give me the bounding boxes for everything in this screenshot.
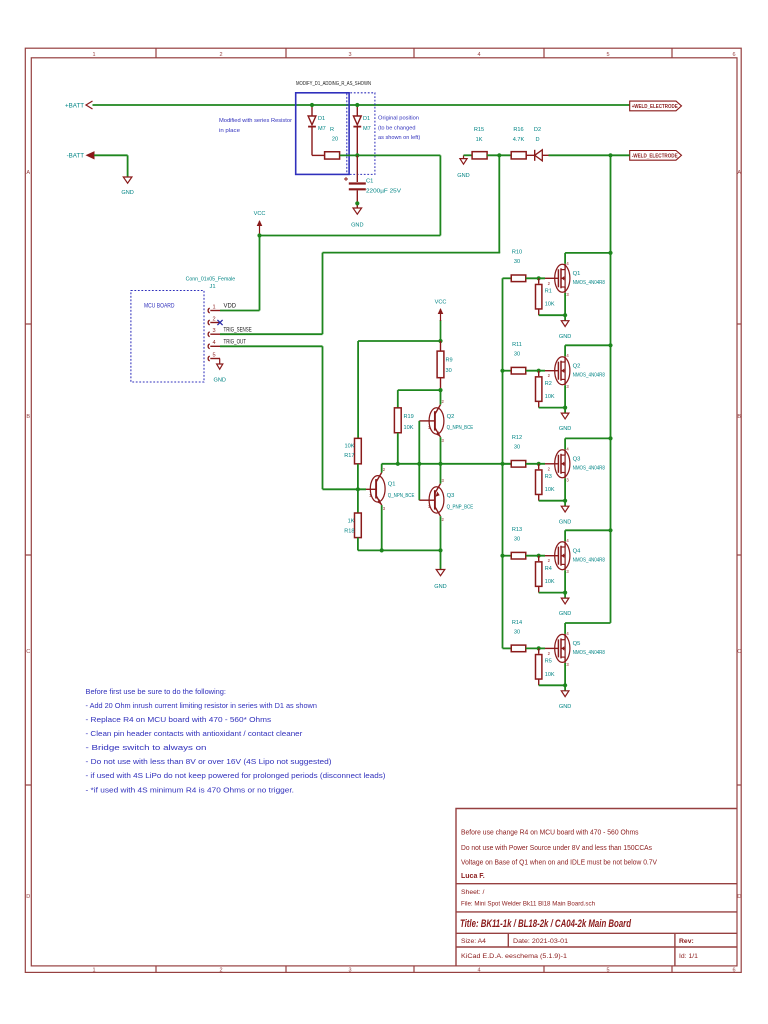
junction source node 1 [563, 313, 567, 317]
svg-text:R4: R4 [545, 566, 552, 572]
transistor Q3 Q_PNP_BCE [429, 487, 444, 513]
wire bus to R14 [503, 647, 512, 649]
ground GND R15 [463, 155, 465, 158]
svg-text:1K: 1K [476, 137, 483, 143]
driver ground rail [358, 549, 441, 551]
junction VCC rail [257, 233, 261, 237]
wire pin5 to ground [219, 358, 221, 360]
svg-text:2: 2 [219, 52, 222, 58]
hierarchical label -WELD_ELECTRODE [630, 151, 682, 161]
ground driver [440, 550, 442, 569]
svg-text:Q2: Q2 [447, 414, 455, 420]
wire Q5 drain riser [564, 623, 566, 634]
junction base tie on output row [417, 462, 421, 466]
junction source node 4 [563, 591, 567, 595]
svg-text:R: R [330, 127, 334, 133]
svg-text:10K: 10K [545, 672, 555, 678]
wire Q3 drain to bus [565, 437, 610, 439]
svg-text:5: 5 [606, 52, 609, 58]
svg-text:Id: 1/1: Id: 1/1 [679, 953, 698, 960]
svg-text:4: 4 [477, 967, 480, 973]
junction gate bus row 3 [500, 462, 504, 466]
svg-text:Before first use be sure to do: Before first use be sure to do the follo… [86, 687, 227, 696]
diode D1 (with series R) [311, 105, 313, 116]
junction drain bus row 1 [608, 251, 612, 255]
svg-text:R18: R18 [344, 528, 354, 534]
wire source to R2 [539, 407, 565, 409]
svg-text:- Replace R4 on MCU board with: - Replace R4 on MCU board with 470 - 560… [86, 715, 272, 724]
wire pin4 TRIG_OUT [220, 345, 323, 347]
wire R11 to gate [526, 370, 545, 372]
wire Q1 drain to bus [565, 252, 610, 254]
resistor R3 10K [538, 464, 540, 469]
wire Q4 drain riser [564, 530, 566, 541]
wire TRIG_OUT riser [322, 346, 324, 489]
transistor Q5 NMOS_4N04R8 [555, 634, 570, 662]
junction gate bus row 4 [500, 554, 504, 558]
wire Q3 collector to ground rail [440, 516, 442, 550]
transistor Q2 NMOS_4N04R8 [555, 357, 570, 385]
gate drive bus vertical [502, 278, 504, 648]
resistor R18 1K [355, 513, 362, 538]
svg-text:C: C [737, 649, 741, 655]
diode D1 original position [356, 105, 358, 116]
wire GND to R15 [464, 154, 473, 156]
wire +BATT to +WELD_ELECTRODE [93, 104, 630, 106]
svg-text:30: 30 [514, 445, 520, 451]
junction R9 bottom [438, 388, 442, 392]
resistor R12 30 [511, 461, 526, 468]
driver output row [382, 463, 512, 465]
svg-text:- Bridge switch to always on: - Bridge switch to always on [86, 743, 207, 752]
svg-text:A: A [26, 170, 30, 176]
junction C1 bottom [355, 201, 359, 205]
wire pin3 TRIG_SENSE [220, 333, 323, 335]
wire Q2 collector [440, 390, 442, 404]
svg-text:D1: D1 [318, 116, 325, 122]
wire Q2 drain riser [564, 345, 566, 356]
resistor R16 4.7K [511, 152, 526, 159]
svg-text:30: 30 [514, 629, 520, 635]
svg-text:A: A [737, 170, 741, 176]
svg-text:1K: 1K [348, 518, 355, 524]
svg-text:GND: GND [351, 223, 363, 229]
wire R14 to gate [526, 647, 545, 649]
junction drain bus row 4 [608, 528, 612, 532]
transistor Q1 Q_NPN_BCE [370, 476, 385, 502]
junction Q1 base node [356, 487, 360, 491]
wire R17 to base node [357, 464, 359, 513]
wire source to R4 [539, 592, 565, 594]
svg-text:NMOS_4N04R8: NMOS_4N04R8 [573, 650, 605, 656]
junction drain bus row 2 [608, 343, 612, 347]
svg-text:GND: GND [559, 611, 571, 617]
ground Q2 [564, 408, 566, 414]
wire bus to R12 [503, 463, 512, 465]
svg-text:R17: R17 [344, 453, 354, 459]
junction source node 3 [563, 499, 567, 503]
wire Q5 source down [564, 663, 566, 685]
svg-text:Voltage on Base of Q1 when on: Voltage on Base of Q1 when on and IDLE m… [461, 859, 657, 866]
transistor Q1 NMOS_4N04R8 [555, 264, 570, 292]
svg-text:Sheet: /: Sheet: / [461, 889, 485, 896]
svg-text:6: 6 [732, 52, 735, 58]
wire rail to R17 [357, 341, 359, 438]
svg-text:R13: R13 [512, 527, 522, 533]
svg-text:+WELD_ELECTRODE: +WELD_ELECTRODE [632, 104, 678, 110]
svg-text:D2: D2 [534, 127, 541, 133]
wire Q3 emitter to output row [440, 464, 442, 484]
wire Q4 source down [564, 570, 566, 592]
svg-text:- Clean pin header contacts wi: - Clean pin header contacts with antioxi… [86, 729, 303, 738]
svg-text:Title: BK11-1k / BL18-2k / CA0: Title: BK11-1k / BL18-2k / CA04-2k Main … [460, 918, 632, 930]
svg-text:File: Mini Spot Welder Bk11 Bl: File: Mini Spot Welder Bk11 Bl18 Main Bo… [461, 901, 595, 908]
resistor R9 30 [440, 341, 442, 351]
svg-text:4: 4 [212, 340, 215, 346]
svg-text:R10: R10 [512, 250, 522, 256]
junction gate node 2 [537, 369, 541, 373]
svg-text:NMOS_4N04R8: NMOS_4N04R8 [573, 372, 605, 378]
svg-text:3: 3 [348, 52, 351, 58]
svg-text:Q2: Q2 [573, 363, 581, 369]
svg-text:in place: in place [219, 128, 240, 134]
junction R19 output [396, 462, 400, 466]
title block divider lines [456, 883, 737, 885]
frame row ticks [25, 323, 31, 325]
svg-text:TRIG_OUT: TRIG_OUT [224, 339, 247, 346]
svg-text:VCC: VCC [435, 300, 447, 306]
svg-text:TRIG_SENSE: TRIG_SENSE [224, 326, 252, 333]
resistor R10 30 [511, 275, 526, 282]
svg-text:C: C [26, 649, 30, 655]
junction driver VCC [438, 339, 442, 343]
svg-text:4.7K: 4.7K [513, 137, 525, 143]
junction source node 5 [563, 683, 567, 687]
resistor R11 30 [511, 367, 526, 374]
svg-text:Date: 2021-03-01: Date: 2021-03-01 [513, 938, 568, 945]
resistor R 20 [325, 152, 340, 159]
wire Q3 drain riser [564, 438, 566, 449]
resistor R14 30 [511, 645, 526, 652]
svg-text:Q4: Q4 [573, 548, 582, 554]
svg-text:Q_NPN_BCE: Q_NPN_BCE [447, 425, 474, 431]
svg-text:+BATT: +BATT [65, 102, 84, 109]
svg-text:R15: R15 [474, 127, 484, 133]
svg-text:NMOS_4N04R8: NMOS_4N04R8 [573, 557, 605, 563]
svg-text:- Add 20 Ohm inrush current li: - Add 20 Ohm inrush current limiting res… [86, 701, 317, 710]
svg-text:- if used with 4S LiPo do not: - if used with 4S LiPo do not keep power… [86, 771, 386, 780]
svg-text:R1: R1 [545, 289, 552, 295]
svg-text:Before use change R4 on MCU bo: Before use change R4 on MCU board with 4… [461, 830, 639, 837]
wire source to R1 [539, 314, 565, 316]
svg-text:10K: 10K [404, 425, 414, 431]
svg-text:R14: R14 [512, 620, 522, 626]
svg-text:R11: R11 [512, 342, 522, 348]
resistor R5 10K [538, 648, 540, 653]
svg-text:5: 5 [606, 967, 609, 973]
svg-text:GND: GND [559, 334, 571, 340]
ground Q4 [564, 593, 566, 599]
svg-text:Q1: Q1 [388, 482, 396, 488]
resistor R19 10K [394, 408, 401, 433]
svg-text:6: 6 [732, 967, 735, 973]
svg-text:VCC: VCC [254, 211, 266, 217]
ground -BATT [123, 177, 132, 183]
wire bus to R11 [503, 370, 512, 372]
wire Q2 drain to bus [565, 344, 610, 346]
svg-text:- Do not use with less than 8V: - Do not use with less than 8V or over 1… [86, 757, 332, 766]
svg-text:Conn_01x05_Female: Conn_01x05_Female [186, 276, 236, 282]
svg-text:5: 5 [212, 352, 215, 358]
svg-text:B: B [26, 414, 30, 420]
wire source to R3 [539, 500, 565, 502]
svg-text:(to be changed: (to be changed [378, 125, 416, 131]
svg-text:KiCad E.D.A. eeschema (5.1.9): KiCad E.D.A. eeschema (5.1.9)-1 [461, 953, 567, 960]
junction gate node 5 [537, 646, 541, 650]
ground Q3 [564, 501, 566, 507]
svg-text:Original position: Original position [378, 116, 419, 122]
power flag VCC main [259, 221, 261, 236]
svg-text:10K: 10K [545, 487, 555, 493]
svg-text:MCU BOARD: MCU BOARD [144, 303, 175, 310]
svg-text:Q_PNP_BCE: Q_PNP_BCE [447, 505, 474, 511]
junction driver ground [438, 548, 442, 552]
svg-text:-BATT: -BATT [67, 153, 85, 160]
svg-text:2: 2 [219, 967, 222, 973]
svg-text:3: 3 [348, 967, 351, 973]
transistor Q3 NMOS_4N04R8 [555, 450, 570, 478]
hierarchical label +WELD_ELECTRODE [630, 101, 682, 111]
svg-text:Q3: Q3 [447, 493, 455, 499]
svg-text:1: 1 [212, 304, 215, 310]
wire R10 to gate [526, 277, 545, 279]
svg-text:GND: GND [434, 584, 446, 590]
junction drain bus row 3 [608, 436, 612, 440]
no-connect pin2 [217, 320, 222, 325]
wire sense riser [498, 155, 500, 252]
svg-text:R3: R3 [545, 474, 552, 480]
svg-text:30: 30 [514, 537, 520, 543]
junction source node 2 [563, 406, 567, 410]
wire R9 node to R19 [398, 389, 441, 391]
svg-text:Q5: Q5 [573, 641, 581, 647]
svg-text:2200µF 25V: 2200µF 25V [366, 189, 401, 195]
svg-text:10K: 10K [545, 579, 555, 585]
wire pin1 VDD [220, 310, 260, 312]
resistor R15 1K [472, 152, 487, 159]
svg-text:Do not use with Power Source u: Do not use with Power Source under 8V an… [461, 845, 652, 852]
svg-text:D: D [26, 894, 30, 900]
junction gate bus row 2 [500, 369, 504, 373]
wire TRIG_OUT to Q1 base [323, 488, 367, 490]
svg-text:GND: GND [559, 426, 571, 432]
wire Q1 source down [564, 293, 566, 315]
svg-text:R2: R2 [545, 381, 552, 387]
wire Q1 emitter to ground rail [381, 505, 383, 550]
svg-text:MODIFY_D1_ADDING_R_AS_SHOWN: MODIFY_D1_ADDING_R_AS_SHOWN [296, 81, 371, 87]
wire source to R5 [539, 684, 565, 686]
wire R18 to ground rail [357, 538, 359, 551]
wire Q4 drain to bus [565, 529, 610, 531]
wire R19 to output row [397, 433, 399, 464]
svg-text:GND: GND [559, 704, 571, 710]
svg-text:R5: R5 [545, 659, 552, 665]
junction gate node 1 [537, 276, 541, 280]
frame column ticks [155, 48, 157, 58]
svg-text:M7: M7 [318, 126, 326, 132]
junction gate node 3 [537, 462, 541, 466]
svg-text:D1: D1 [363, 116, 370, 122]
ground C1 [353, 208, 362, 214]
drain bus vertical [610, 155, 612, 623]
svg-text:J1: J1 [209, 284, 215, 290]
note box MCU BOARD [131, 291, 204, 383]
junction D1 anode [310, 103, 314, 107]
svg-text:Rev:: Rev: [679, 938, 694, 945]
ground Q5 [564, 685, 566, 691]
svg-text:1: 1 [92, 967, 95, 973]
resistor R1 10K [538, 278, 540, 283]
wire R15 to R16 [487, 154, 511, 156]
svg-text:C1: C1 [366, 178, 373, 184]
svg-text:10K: 10K [545, 302, 555, 308]
svg-text:4: 4 [477, 52, 480, 58]
wire VDD riser [259, 236, 261, 311]
junction sense divider tap [497, 153, 501, 157]
svg-text:Luca F.: Luca F. [461, 873, 485, 880]
svg-text:2: 2 [212, 316, 215, 322]
svg-text:GND: GND [559, 519, 571, 525]
svg-text:D: D [737, 894, 741, 900]
svg-text:10K: 10K [345, 444, 355, 450]
wire rail down to VCC node [439, 155, 441, 235]
svg-text:30: 30 [514, 352, 520, 358]
wire -BATT to ground [94, 154, 128, 156]
diode D2 [526, 154, 535, 156]
svg-text:R12: R12 [512, 435, 522, 441]
wire D2 to -WELD_ELECTRODE [549, 154, 630, 156]
wire bus to R13 [503, 555, 512, 557]
svg-text:as shown on left): as shown on left) [378, 135, 420, 141]
svg-text:GND: GND [121, 190, 133, 196]
resistor R13 30 [511, 552, 526, 559]
wire R12 to gate [526, 463, 545, 465]
junction Q1 emitter ground [380, 548, 384, 552]
wire Q1 drain riser [564, 253, 566, 264]
note box dashed (original position) [347, 93, 375, 175]
wire R20 to C1 node [340, 154, 441, 156]
wire TRIG_SENSE riser [322, 253, 324, 335]
wire base tie Q2-Q3 [418, 421, 420, 500]
svg-text:Q_NPN_BCE: Q_NPN_BCE [388, 493, 415, 499]
ground J1 pin5 [217, 364, 223, 369]
svg-text:3: 3 [212, 328, 215, 334]
ground Q1 [564, 315, 566, 321]
svg-text:NMOS_4N04R8: NMOS_4N04R8 [573, 465, 605, 471]
svg-text:VDD: VDD [224, 302, 237, 309]
transistor Q2 Q_NPN_BCE [429, 408, 444, 434]
junction emitters on output row [438, 462, 442, 466]
wire VCC rail [260, 235, 441, 237]
transistor Q4 NMOS_4N04R8 [555, 542, 570, 570]
wire Q1 collector to output row [381, 464, 383, 473]
svg-text:GND: GND [213, 378, 225, 384]
svg-text:Modified with series Resistor: Modified with series Resistor [219, 118, 292, 124]
wire R13 to gate [526, 555, 545, 557]
power flag VCC driver [440, 320, 442, 341]
svg-text:D: D [535, 137, 539, 143]
svg-text:-WELD_ELECTRODE: -WELD_ELECTRODE [632, 154, 678, 160]
title block outline [456, 809, 737, 967]
wire TRIG_SENSE to gate bus [323, 252, 501, 254]
wire Q2 emitter to output row [440, 437, 442, 464]
resistor R17 10K [355, 438, 362, 464]
svg-text:30: 30 [514, 259, 520, 265]
svg-text:NMOS_4N04R8: NMOS_4N04R8 [573, 280, 605, 286]
junction gate node 4 [537, 554, 541, 558]
svg-text:10K: 10K [545, 394, 555, 400]
svg-text:M7: M7 [363, 126, 371, 132]
svg-text:20: 20 [332, 137, 338, 143]
note box solid (modified circuit) [296, 93, 349, 175]
svg-text:B: B [737, 414, 741, 420]
svg-text:R16: R16 [513, 127, 523, 133]
wire Q3 source down [564, 478, 566, 500]
svg-text:Q3: Q3 [573, 456, 581, 462]
svg-text:1: 1 [92, 52, 95, 58]
wire Q5 drain to bus [565, 622, 610, 624]
svg-text:R9: R9 [446, 357, 453, 363]
capacitor C1 2200uF 25V [356, 155, 358, 182]
svg-text:Q1: Q1 [573, 271, 581, 277]
svg-text:30: 30 [446, 368, 452, 374]
wire bus to R10 [503, 277, 512, 279]
resistor R4 10K [538, 556, 540, 561]
svg-text:- *if used with 4S minimum R4: - *if used with 4S minimum R4 is 470 Ohm… [86, 785, 295, 794]
junction drain bus top [608, 153, 612, 157]
svg-text:Size: A4: Size: A4 [461, 938, 486, 945]
resistor R2 10K [538, 371, 540, 376]
junction D1b anode [355, 103, 359, 107]
svg-text:GND: GND [457, 173, 469, 179]
junction C1 top node [355, 153, 359, 157]
svg-text:R19: R19 [404, 414, 414, 420]
wire driver VCC rail [358, 340, 440, 342]
wire Q2 source down [564, 385, 566, 407]
